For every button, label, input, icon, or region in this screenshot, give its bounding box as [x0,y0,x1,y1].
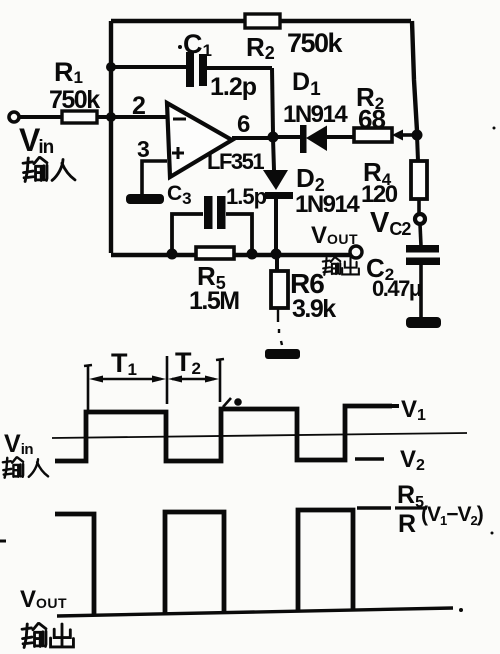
wire: op-amp output [232,136,273,140]
svg-text:6: 6 [237,111,250,138]
svg-text:V1: V1 [401,396,426,424]
V2 level dash [355,457,384,460]
op-amp U1 LF351 [111,92,264,177]
svg-text:VOUT: VOUT [20,586,67,613]
svg-text:V2: V2 [400,446,425,474]
svg-text:1N914: 1N914 [295,191,360,218]
svg-text:2: 2 [132,92,146,120]
svg-text:Vin: Vin [19,122,54,158]
svg-text:C1: C1 [183,29,212,60]
svg-text:R2: R2 [246,32,275,63]
ground below R6 [265,349,300,359]
svg-text:750k: 750k [287,28,344,58]
wire: left vertical rail [109,21,113,253]
svg-text:1.5M: 1.5M [189,287,239,315]
diode D1 1N914 [278,68,354,153]
resistor R2 (750k) top [245,14,344,63]
svg-text:3: 3 [137,136,150,162]
svg-text:T2: T2 [175,347,201,378]
svg-text:68: 68 [358,104,385,134]
scan noise marks [0,540,6,543]
resistor R1 750k [49,57,111,123]
wire: top feedback rail [111,19,411,23]
resistor R2 (68) [354,82,415,142]
resistor R4 120 [361,135,427,214]
annotation arrow on edge [223,398,231,407]
svg-text:R: R [398,510,416,538]
node: junction C1 tap [106,62,116,72]
resistor R5 1.5M [189,247,239,315]
svg-text:1.2p: 1.2p [210,73,257,101]
dimension T1 T2 [84,365,92,411]
node: C3 left junction [167,249,178,260]
svg-text:D1: D1 [292,68,321,100]
node VC2 terminal [370,207,425,239]
svg-text:R5: R5 [397,481,424,511]
baseline [57,608,453,616]
node: junction input [106,112,116,122]
svg-text:T1: T1 [111,348,137,379]
wire: C1 to output node [272,68,273,133]
diode D2 1N914 [263,138,360,255]
svg-text:C3: C3 [167,182,192,208]
output terminal Vout [311,222,362,275]
node: C3 right junction [247,249,258,260]
node: right junction [412,130,423,141]
svg-text:750k: 750k [49,86,100,114]
ground C2 [406,317,441,328]
level dash to formula [357,506,391,509]
ground pin3 [126,194,164,204]
capacitor C3 loop [167,182,267,254]
node: R6 junction [271,249,282,260]
formula R5/R (V1-V2) [395,481,483,538]
wire: bottom rail to R5 [111,253,350,257]
wire: right vertical from top [412,21,417,131]
svg-text:1.5p: 1.5p [226,184,267,209]
resistor R6 3.9k [271,255,336,345]
svg-text:LF351: LF351 [207,149,264,174]
Vout pulses [55,514,94,614]
capacitor C1 [111,29,272,101]
svg-text:VC2: VC2 [370,207,411,239]
node: output junction [268,132,279,143]
Vin axis line [52,433,467,438]
input terminal Vin [9,112,62,122]
svg-text:VOUT: VOUT [311,222,358,249]
svg-text:3.9k: 3.9k [292,295,336,323]
svg-text:Vin: Vin [4,430,33,458]
svg-text:R1: R1 [54,57,83,87]
label Vin [19,122,75,181]
V1 level dash [392,404,399,408]
svg-text:0.47μ: 0.47μ [372,276,421,301]
svg-text:(V1−V2): (V1−V2) [421,503,483,528]
svg-text:120: 120 [361,181,398,208]
Vin square wave [55,406,392,461]
svg-text:1N914: 1N914 [283,101,348,128]
capacitor C2 0.47u [366,224,440,318]
wire: pin3 to ground [142,161,167,194]
